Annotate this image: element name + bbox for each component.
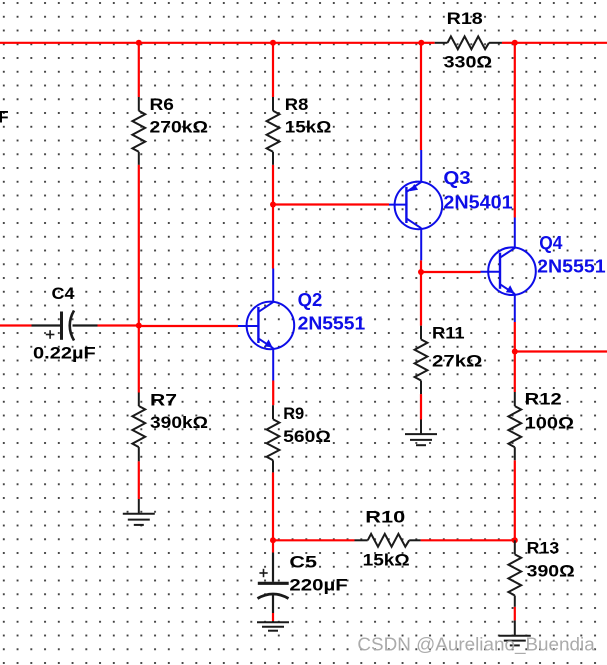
wire Q4 emitter to node [514,322,516,352]
wire R18 right stub connect [502,42,515,44]
wire C4 left from edge [0,324,32,326]
resistor R18 [435,36,502,49]
svg-text:27kΩ: 27kΩ [432,353,482,371]
node junction top x1 [136,40,142,46]
svg-text:R18: R18 [447,10,483,28]
ground under R11 [405,420,437,446]
wire R18 left stub connect [421,42,434,44]
resistor R10 [355,534,421,547]
wire C5 to ground [272,613,274,621]
wire top rail right [515,42,607,44]
wire R9 bottom to node [272,472,274,540]
svg-text:220µF: 220µF [289,577,347,595]
node junction R10/R12/R13 [512,537,518,543]
wire R10 right to node [421,539,515,541]
resistor R7 [132,393,145,462]
transistor Q4 (NPN 2N5551) [481,218,536,323]
wire R12 bottom to node [514,460,516,540]
wire x1 column R6 bottom to C4 node [138,165,140,326]
capacitor C4 [32,311,98,341]
wire x2 column R8 top [272,43,274,97]
ground under R7 [123,499,155,525]
wire top rail left [0,42,421,44]
svg-text:390Ω: 390Ω [527,563,575,581]
resistor R8 [267,97,280,165]
node junction C4/R6/R7 [136,323,142,329]
node junction Q4 emitter/R12/output [512,349,518,355]
wire Q2 emitter to R9 [272,381,274,406]
wire node to R12 top [514,352,516,393]
transistor Q2 (NPN 2N5551) [238,269,294,381]
resistor R11 [415,326,428,394]
svg-text:R13: R13 [527,540,560,558]
resistor R9 [267,405,280,472]
svg-text:15kΩ: 15kΩ [363,552,410,570]
svg-text:C5: C5 [289,554,317,572]
wire output node to right edge [515,350,607,352]
wire C4 right to node [98,324,139,326]
svg-text:F: F [0,109,9,127]
svg-text:2N5551: 2N5551 [537,256,606,277]
svg-text:560Ω: 560Ω [283,428,331,446]
svg-text:CSDN @Aureliano_Buendia: CSDN @Aureliano_Buendia [357,634,595,656]
svg-text:R6: R6 [150,96,174,114]
svg-text:R8: R8 [285,96,309,114]
svg-text:390kΩ: 390kΩ [150,414,208,432]
svg-text:Q3: Q3 [443,167,470,188]
wire R7 bottom to ground [138,461,140,499]
wire R8 bottom to node [272,165,274,205]
resistor R12 [508,392,521,460]
svg-text:R12: R12 [525,391,562,409]
wire node to Q2 base [139,325,238,327]
wire x3 column top to Q3 emitter [420,43,422,150]
svg-text:Q2: Q2 [298,289,323,310]
svg-text:C4: C4 [52,285,76,303]
wire node to Q4 base [421,271,481,273]
svg-text:100Ω: 100Ω [525,415,574,433]
svg-text:15kΩ: 15kΩ [285,119,332,137]
wire x1 column R6 top [138,43,140,97]
node junction top x4 [512,40,518,46]
svg-text:2N5401: 2N5401 [443,192,512,213]
wire node down to Q2 collector [272,205,274,269]
wire node to R11 [420,272,422,326]
wire R7 top [138,326,140,393]
capacitor C5 [258,553,289,614]
svg-text:R10: R10 [365,509,405,527]
svg-text:0.22µF: 0.22µF [33,345,96,363]
wire Q3 collector to node [420,260,422,272]
resistor R13 [508,540,521,607]
wire R13 bottom to ground [514,607,516,621]
svg-text:330Ω: 330Ω [444,54,493,72]
transistor Q3 (PNP 2N5401) [389,150,442,260]
ground under R13 [499,620,531,645]
svg-text:R9: R9 [283,405,304,423]
node junction R8/Q3 base/Q2 collector [270,202,276,208]
node junction R9/C5/R10 [270,537,276,543]
wire node to C5 [272,540,274,552]
wire R11 bottom to ground [420,394,422,419]
ground under C5 [257,621,289,631]
wire node to R10 left [273,539,355,541]
node junction top x3 [418,40,424,46]
svg-text:R11: R11 [432,324,465,342]
svg-text:270kΩ: 270kΩ [150,119,209,137]
wire node to Q3 base [273,203,389,205]
svg-text:Q4: Q4 [539,232,563,253]
resistor R6 [132,97,145,165]
svg-text:R7: R7 [150,392,177,410]
wire x4 column top to Q4 collector [514,43,516,218]
node junction top x2 [270,40,276,46]
node junction Q3 collector/Q4 base/R11 [418,269,424,275]
svg-text:2N5551: 2N5551 [298,313,366,334]
